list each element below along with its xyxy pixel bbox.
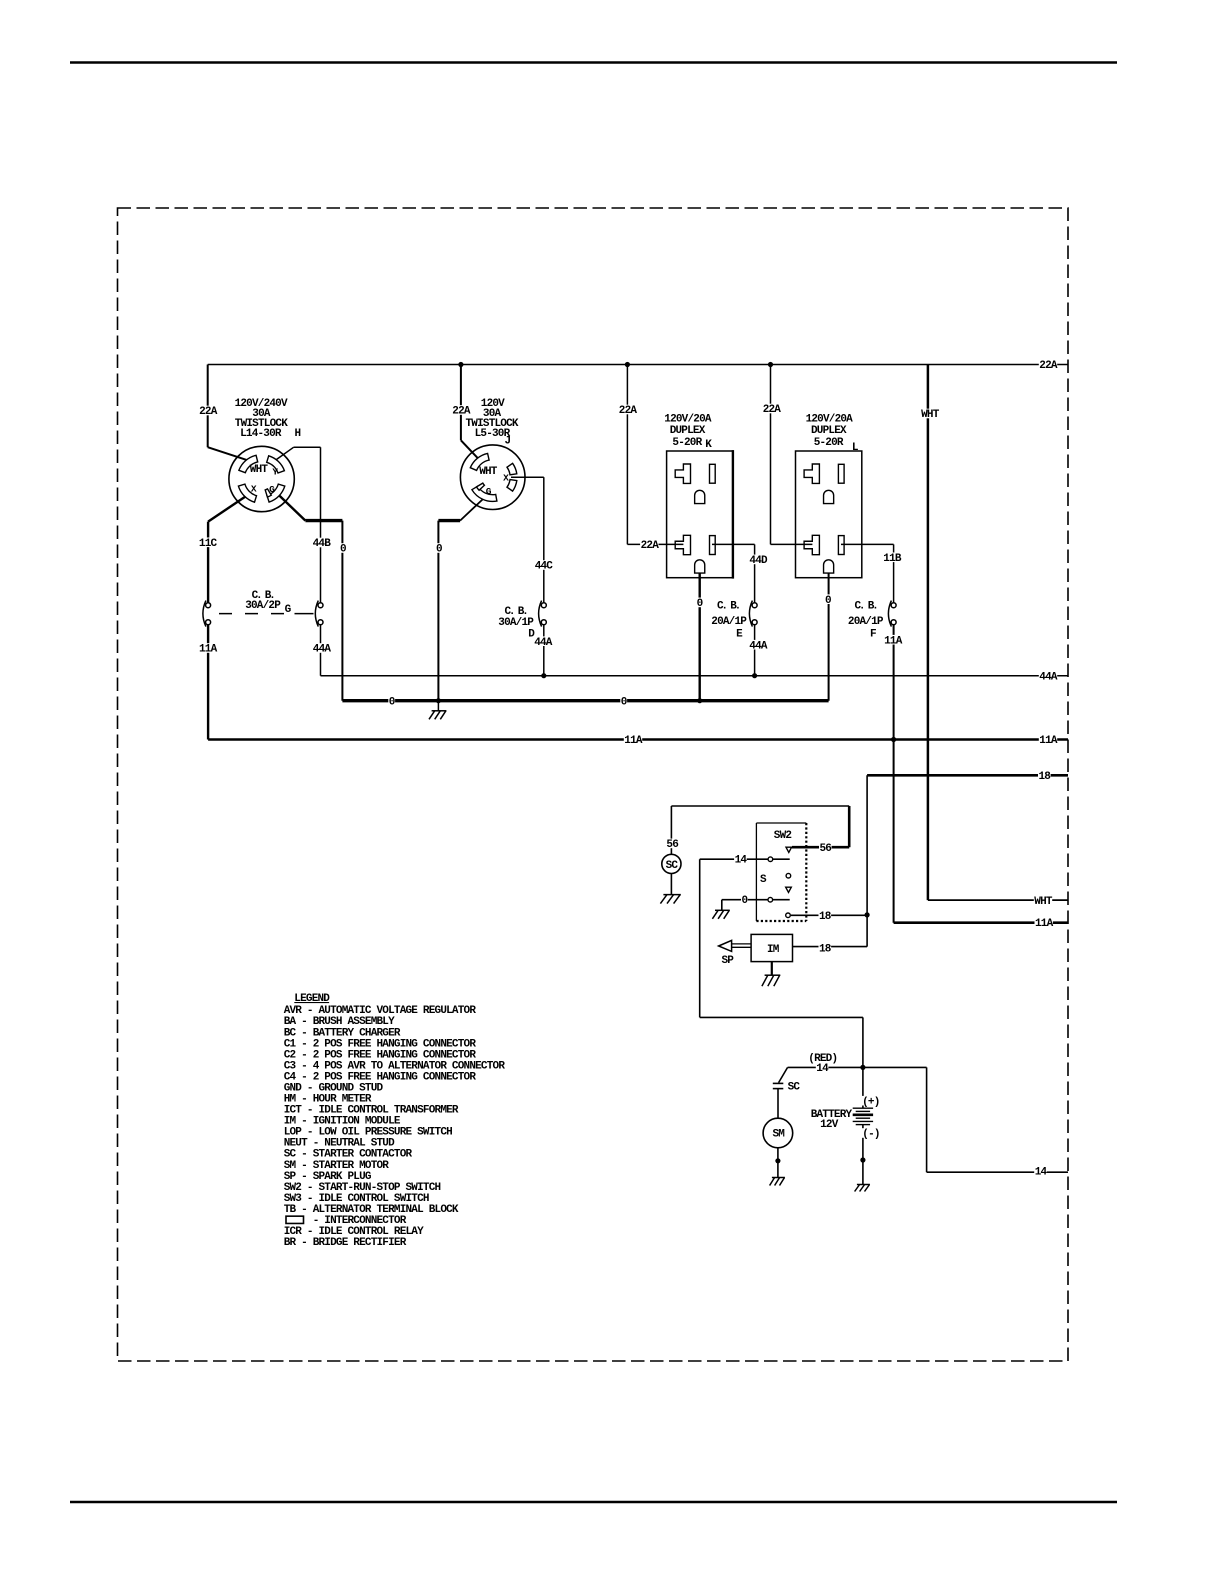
svg-text:C. B.: C. B. [854,600,877,612]
svg-text:C. B.: C. B. [717,600,740,612]
svg-text:30A/1P: 30A/1P [498,617,534,629]
svg-text:SP: SP [721,955,734,967]
svg-text:0: 0 [621,696,627,708]
svg-text:SW2: SW2 [774,830,792,842]
svg-text:WHT: WHT [1034,896,1053,908]
svg-text:5-20R: 5-20R [814,437,844,449]
svg-text:44D: 44D [749,555,768,567]
svg-text:11B: 11B [883,553,902,565]
svg-text:120V/20A: 120V/20A [806,413,854,425]
svg-text:14: 14 [1035,1167,1048,1179]
svg-text:120V/20A: 120V/20A [664,413,712,425]
svg-text:22A: 22A [1039,360,1058,372]
svg-text:14: 14 [735,854,748,866]
svg-text:LEGEND: LEGEND [294,993,330,1005]
svg-text:30A/2P: 30A/2P [245,600,281,612]
svg-text:22A: 22A [763,404,782,416]
svg-text:11A: 11A [1039,735,1058,747]
svg-text:18: 18 [819,943,832,955]
svg-text:44A: 44A [749,640,768,652]
svg-text:WHT: WHT [479,466,498,478]
svg-text:SC: SC [666,860,679,872]
svg-text:DUPLEX: DUPLEX [811,425,847,437]
svg-text:0: 0 [389,696,395,708]
svg-text:SM: SM [772,1129,785,1141]
svg-text:56: 56 [666,839,678,851]
svg-text:L14-30R: L14-30R [240,428,282,440]
svg-text:0: 0 [436,544,442,556]
svg-text:56: 56 [819,843,831,855]
svg-text:11A: 11A [884,635,903,647]
svg-text:20A/1P: 20A/1P [848,616,884,628]
svg-text:44B: 44B [313,538,332,550]
svg-text:WHT: WHT [921,409,940,421]
svg-text:18: 18 [1038,771,1051,783]
svg-text:11A: 11A [624,735,643,747]
svg-text:DUPLEX: DUPLEX [670,425,706,437]
svg-text:0: 0 [825,595,831,607]
svg-text:WHT: WHT [250,464,269,476]
svg-text:F: F [870,629,876,641]
svg-text:44A: 44A [1039,671,1058,683]
svg-text:22A: 22A [641,540,660,552]
svg-text:12V: 12V [820,1119,839,1131]
svg-text:0: 0 [697,598,703,610]
svg-text:11C: 11C [199,538,218,550]
svg-text:22A: 22A [199,406,218,418]
svg-text:11A: 11A [1035,918,1054,930]
svg-text:(+): (+) [862,1096,879,1108]
svg-text:20A/1P: 20A/1P [711,616,747,628]
svg-text:5-20R: 5-20R [672,437,702,449]
svg-text:14: 14 [816,1063,829,1075]
svg-text:44A: 44A [313,644,332,656]
svg-text:22A: 22A [452,406,471,418]
svg-text:IM: IM [767,944,780,956]
svg-text:SC: SC [788,1082,801,1094]
svg-text:J: J [504,436,510,448]
svg-text:H: H [294,428,300,440]
svg-text:0: 0 [340,544,346,556]
svg-text:11A: 11A [199,644,218,656]
svg-text:44C: 44C [535,561,554,573]
svg-text:(-): (-) [862,1129,879,1141]
svg-text:44A: 44A [534,637,553,649]
svg-text:22A: 22A [619,405,638,417]
svg-text:18: 18 [819,911,832,923]
svg-text:BR - BRIDGE RECTIFIER: BR - BRIDGE RECTIFIER [284,1237,407,1249]
svg-text:0: 0 [741,895,747,907]
